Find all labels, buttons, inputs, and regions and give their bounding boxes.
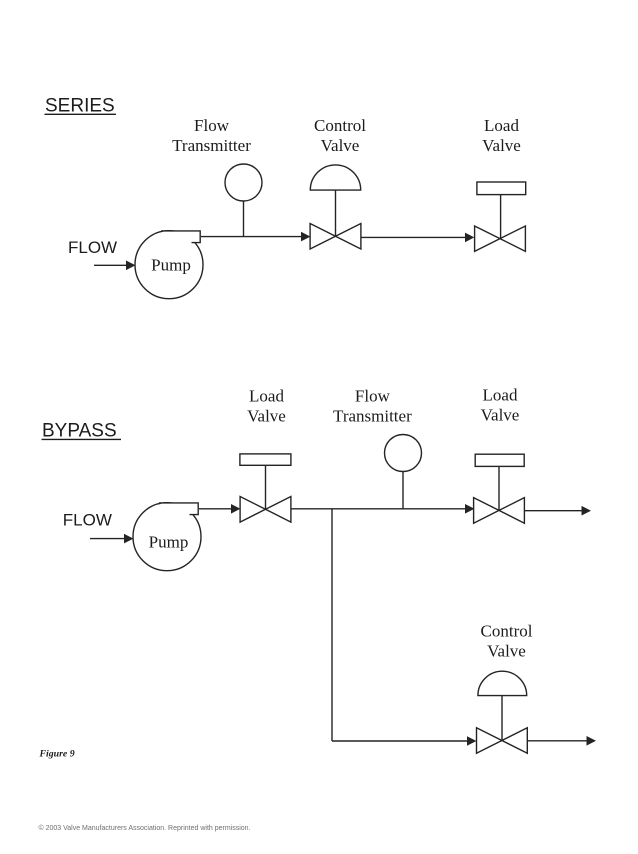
svg-text:Load: Load <box>249 387 284 406</box>
svg-text:Transmitter: Transmitter <box>333 407 412 426</box>
svg-text:Valve: Valve <box>487 641 526 660</box>
load valve LV1 (series) <box>475 182 526 251</box>
label Load Valve (series) <box>482 116 521 155</box>
label Load Valve (bypass first) <box>247 387 286 426</box>
label Load Valve (bypass second) <box>481 386 520 425</box>
title BYPASS <box>42 421 122 442</box>
svg-text:Valve: Valve <box>321 136 360 155</box>
svg-text:Pump: Pump <box>149 533 189 552</box>
svg-text:FLOW: FLOW <box>63 511 112 530</box>
pipe load valve 1 to load valve 2 with junction (bypass) <box>291 504 475 514</box>
outlet pipe with arrow (bypass top) <box>524 506 591 516</box>
control valve CV1 (series) <box>310 165 361 249</box>
svg-text:Control: Control <box>481 622 533 641</box>
svg-text:© 2003 Valve Manufacturers Ass: © 2003 Valve Manufacturers Association. … <box>39 824 251 832</box>
pump P2 (bypass) <box>133 503 201 571</box>
bypass branch horizontal pipe to control valve <box>332 736 476 746</box>
label Flow Transmitter (series) <box>172 116 251 155</box>
pipe pump to load valve 1 (bypass) <box>199 504 240 514</box>
svg-text:BYPASS: BYPASS <box>42 421 117 442</box>
flow transmitter FT2 (bypass) <box>385 435 422 509</box>
svg-text:Load: Load <box>484 116 519 135</box>
label Control Valve (bypass) <box>481 622 533 661</box>
svg-text:Flow: Flow <box>194 116 230 135</box>
svg-text:Pump: Pump <box>151 255 191 274</box>
svg-text:Transmitter: Transmitter <box>172 136 251 155</box>
svg-text:SERIES: SERIES <box>45 96 115 117</box>
pump P1 (series) <box>135 231 203 299</box>
label Flow Transmitter (bypass) <box>333 387 412 426</box>
flow inlet arrow (bypass) <box>90 534 134 544</box>
svg-text:FLOW: FLOW <box>68 238 117 257</box>
control valve CV2 (bypass) <box>477 671 528 753</box>
label Control Valve (series) <box>314 116 366 155</box>
svg-text:Flow: Flow <box>355 387 391 406</box>
svg-text:Figure 9: Figure 9 <box>39 749 75 760</box>
load valve LV2 (bypass inline) <box>240 454 291 522</box>
svg-text:Control: Control <box>314 116 366 135</box>
title SERIES <box>45 96 117 117</box>
outlet pipe with arrow (bypass bottom) <box>527 736 596 746</box>
load valve LV3 (bypass outlet) <box>474 454 525 523</box>
flow transmitter FT1 (series) <box>225 164 262 237</box>
svg-text:Valve: Valve <box>482 136 521 155</box>
svg-text:Valve: Valve <box>247 407 286 426</box>
pipe pump to control valve (series) <box>201 232 310 242</box>
svg-text:Valve: Valve <box>481 405 520 424</box>
pipe control valve to load valve (series) <box>361 233 474 243</box>
flow inlet arrow (series) <box>94 261 136 271</box>
bypass branch vertical pipe <box>331 509 333 741</box>
svg-text:Load: Load <box>483 386 518 405</box>
